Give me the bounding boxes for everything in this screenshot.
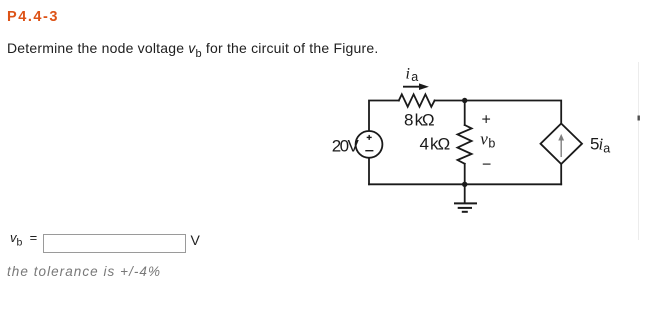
wire: left branch below source	[368, 158, 370, 184]
svg-text:+: +	[482, 112, 491, 129]
wire: middle branch upper	[464, 101, 466, 126]
node b junction dot (top)	[462, 98, 467, 103]
answer unit V	[191, 232, 200, 248]
tolerance note	[7, 264, 161, 279]
svg-text:a: a	[603, 142, 610, 156]
answer label v_b =	[10, 230, 37, 249]
svg-text:8: 8	[404, 111, 413, 130]
resistor 4k (vertical zigzag)	[458, 125, 472, 164]
small scrollbar mark	[638, 116, 640, 121]
voltage source minus mark	[365, 150, 373, 152]
voltage source V1 circle	[356, 131, 383, 158]
ground symbol bars	[454, 203, 477, 211]
svg-text:b: b	[488, 136, 495, 150]
svg-text:4: 4	[420, 134, 429, 153]
problem title	[7, 9, 59, 25]
wire: top-left segment from source to resistor	[369, 101, 399, 132]
dependent source internal arrow	[558, 134, 564, 157]
svg-text:−: −	[482, 157, 491, 174]
current arrow i_a	[403, 83, 429, 90]
problem statement	[7, 40, 378, 60]
svg-text:Ω: Ω	[438, 134, 451, 153]
svg-text:v: v	[480, 129, 488, 148]
answer input box	[43, 234, 186, 253]
voltage source plus mark	[367, 135, 372, 140]
faint page divider line	[638, 62, 640, 240]
svg-text:20V: 20V	[332, 136, 360, 155]
svg-text:a: a	[411, 70, 418, 84]
wire: right branch below dependent source	[560, 164, 562, 184]
svg-text:Ω: Ω	[422, 111, 435, 130]
ground stem	[464, 184, 466, 203]
bottom junction dot	[462, 182, 467, 187]
dependent current source diamond	[541, 124, 583, 165]
wire: top-right segment from node b to dependent source	[465, 101, 562, 124]
resistor 8k (horizontal zigzag)	[399, 94, 435, 107]
svg-text:i: i	[406, 65, 410, 82]
wire: top segment from resistor to node b	[435, 100, 465, 102]
wire: middle branch lower	[464, 164, 466, 185]
wire: bottom segment	[369, 183, 561, 185]
